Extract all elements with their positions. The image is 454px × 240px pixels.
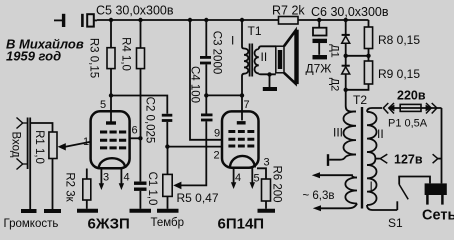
wire: C4/C3 junction to T1/V2 pin 7 node (206, 94, 242, 96)
svg-text:Тембр: Тембр (151, 217, 185, 229)
V2 anode bar (pin 7) (237, 121, 246, 124)
ground bar (C6) (313, 55, 328, 59)
capacitor C2 0,025 (162, 115, 173, 120)
fuse Р1 0,5А (400, 104, 421, 111)
wire: winding I bottom to switch S1 (367, 205, 397, 210)
svg-text:4: 4 (124, 172, 130, 184)
node: pin6/R4/C1 (138, 136, 142, 140)
svg-text:9: 9 (214, 128, 220, 140)
node: Д2/R9/T2 HV (344, 88, 348, 92)
wire: +B top rail right segment (298, 19, 369, 21)
wire: +B top rail left segment (97, 19, 279, 21)
T1 secondary winding II (255, 49, 259, 73)
wire: T1 secondary top to speaker (259, 46, 276, 49)
svg-text:С1 1,0: С1 1,0 (146, 172, 158, 206)
svg-text:R1 1,0: R1 1,0 (33, 130, 45, 164)
transformer T2 core (361, 107, 363, 209)
node: rail/g2 feed (188, 18, 192, 22)
node: rail/T1 (240, 18, 244, 22)
V1 grid dashes (100, 132, 126, 148)
wire: jack to R1 top (30, 123, 52, 132)
V1 heater lead pin 3 with arrow (100, 169, 102, 184)
T2 winding III (HV secondary) (343, 112, 356, 155)
resistor R3 0,15 (107, 20, 115, 96)
V2 cathode dome (230, 156, 255, 168)
svg-text:I: I (370, 179, 373, 193)
svg-text:II: II (261, 50, 268, 64)
wire C5 to rail (95, 19, 98, 21)
resistor R7 (279, 17, 299, 25)
node: Д1/Д2 junction (344, 54, 348, 58)
wire: R6 bottom to ground (265, 201, 267, 209)
ground bar (R5) (157, 209, 179, 213)
switch S1 (397, 177, 430, 211)
svg-text:7: 7 (244, 99, 250, 111)
T2 heater winding (6,3в) (345, 178, 357, 204)
terminal bar (HV return) (327, 154, 329, 166)
ground bar (R6) (258, 209, 276, 213)
svg-text:Т1: Т1 (248, 24, 262, 38)
wire: C2 bottom to g1 junction (166, 122, 168, 147)
svg-text:1959 год: 1959 год (6, 49, 61, 64)
input jack X1 (Вход) (17, 118, 31, 210)
V2 heater lead pin 5 with arrow (251, 168, 253, 183)
svg-text:Вход: Вход (10, 131, 22, 157)
speaker BA1 (276, 30, 299, 84)
resistor R9 0,15 (364, 61, 372, 84)
svg-text:Р1 0,5А: Р1 0,5А (388, 118, 428, 130)
wire: anode Y95 run to C2 (111, 96, 167, 114)
svg-text:2: 2 (214, 150, 220, 162)
jack socket line B / ground conductor (29, 118, 31, 210)
svg-text:127в: 127в (394, 153, 423, 167)
capacitor C3 2000 (200, 20, 211, 95)
wire: junction down to C1 (139, 138, 141, 181)
node: speaker return (267, 72, 271, 76)
svg-text:R9 0,15: R9 0,15 (378, 67, 420, 81)
wire: V2 cathode pin 3 to R6 (257, 168, 266, 179)
V1 anode bar (pin 5) (106, 121, 116, 124)
node: R8/R9 junction (366, 54, 370, 58)
C5 minus electrode hollow box (87, 14, 94, 26)
svg-text:220в: 220в (397, 89, 426, 103)
capacitor C1 1,0 (134, 183, 147, 189)
T2 winding I (primary lower) (367, 165, 377, 205)
svg-text:6П14П: 6П14П (218, 216, 265, 233)
svg-text:Сеть: Сеть (422, 208, 454, 224)
127в right chevron to plug wire (433, 154, 438, 163)
svg-text:R5 0,47: R5 0,47 (177, 191, 219, 205)
resistor R8 0,15 (364, 27, 372, 49)
wire: T1 secondary bottom to speaker and ground (259, 72, 276, 75)
svg-text:5: 5 (100, 99, 106, 111)
svg-text:Д7Ж: Д7Ж (306, 62, 332, 76)
svg-text:С4 100: С4 100 (189, 66, 201, 103)
svg-text:R6 200: R6 200 (271, 165, 283, 202)
R5 wiper arrow fed from C4 (181, 121, 206, 185)
node: C3/C4 junction (204, 93, 208, 97)
wire: down to mains plug (441, 108, 443, 183)
svg-text:4: 4 (235, 172, 241, 184)
svg-text:~ 6,3в: ~ 6,3в (303, 190, 335, 202)
node: rail/Д1 (344, 18, 348, 22)
capacitor C6 (electrolytic, vertical) (313, 20, 328, 55)
wire: screen grid feed rail to V2 pin 9 (190, 20, 222, 140)
svg-text:6: 6 (132, 125, 138, 137)
ground bar (R1) (44, 209, 61, 213)
wire: heater winding bottom lead with arrow (321, 204, 358, 209)
node: rail/R4 (138, 18, 142, 22)
jack plug chevron upper (17, 118, 23, 129)
wire between R8 and R9 (368, 49, 370, 62)
node: C2/R5/g1 (165, 144, 169, 148)
wire stub left of C5 (54, 19, 62, 21)
svg-text:R3 0,15: R3 0,15 (88, 38, 100, 78)
diode Д2 (Д7Ж) (342, 56, 350, 90)
wire: HV node down to T2 winding III (346, 90, 356, 112)
wire: C1 bottom to ground (139, 191, 141, 209)
220в connector chevrons right (426, 103, 431, 114)
V2 grid dashes (228, 132, 254, 147)
V2 heater lead pin 4 with arrow (233, 168, 235, 183)
node: anode V1 junction (109, 93, 113, 97)
wire: R9 bottom to HV node (346, 84, 369, 90)
svg-text:R4 1,0: R4 1,0 (120, 37, 132, 71)
node: rail/C6 (317, 18, 321, 22)
wire with fuse P1 (389, 107, 442, 109)
transformer T1 primary winding I (242, 20, 248, 95)
svg-text:5: 5 (254, 173, 260, 185)
svg-text:R7 2k: R7 2k (272, 4, 305, 18)
svg-text:С5 30,0х300в: С5 30,0х300в (96, 4, 174, 18)
wire: V1 pin6 to R4/C1 junction (130, 137, 141, 139)
jack socket line A (27, 118, 29, 170)
T2 tap cusp to 127в (367, 152, 375, 165)
mains plug (Сеть) (425, 183, 447, 204)
127в tap line with chevron (375, 158, 379, 160)
wire: pin7 node down into V2 anode (241, 95, 243, 120)
svg-text:Д2: Д2 (329, 78, 341, 92)
wire: T2 III bottom lead to terminal (329, 155, 356, 160)
capacitor C5 (electrolytic, horizontal) (54, 14, 97, 27)
svg-text:6ЖЗП: 6ЖЗП (88, 216, 130, 233)
resistor R6 200 (262, 179, 271, 201)
capacitor C4 100 (201, 95, 213, 120)
svg-text:1: 1 (83, 136, 89, 148)
C5 plus plate bar (62, 14, 65, 27)
potentiometer R5 0,47 (Тембр) (163, 147, 172, 209)
wire: winding II top lead to 220в line (367, 108, 382, 112)
potentiometer R1 1,0 (Громкость) (49, 132, 57, 159)
diode Д1 (Д7Ж) (342, 20, 350, 56)
svg-text:3: 3 (264, 157, 270, 169)
T2 winding II (220в primary upper) (367, 112, 377, 152)
svg-text:I: I (231, 34, 234, 48)
svg-text:С6 30,0х300в: С6 30,0х300в (311, 5, 389, 19)
wire: anode junction down into tube (110, 96, 112, 122)
ground bar (R2) (77, 209, 98, 213)
T1 core lines (250, 44, 253, 77)
ground bar (T1 secondary) (263, 87, 277, 91)
R1 wiper arrow and wire to tube pin 1 (65, 142, 90, 147)
svg-text:III: III (333, 126, 343, 140)
jack stub upper (23, 122, 28, 124)
node: rail/C3 (204, 18, 208, 22)
tube V1 6Ж3П envelope (91, 111, 130, 168)
V1 heater lead pin 4 with arrow (120, 169, 122, 184)
220в connector chevrons left (383, 103, 388, 114)
wire: speaker return to ground (269, 75, 271, 88)
svg-text:С3 2000: С3 2000 (211, 31, 223, 74)
ground bar (jack shield) (21, 209, 37, 213)
C5 second plate (81, 14, 84, 27)
jack plug chevron lower (17, 159, 23, 170)
tube V2 6П14П envelope (222, 111, 259, 167)
ground bar (C1) (130, 209, 152, 213)
svg-text:3: 3 (103, 172, 109, 184)
wire: R1 bottom to ground (52, 159, 54, 210)
svg-text:II: II (377, 127, 384, 141)
wire: rail corner down into R8 (368, 20, 370, 27)
svg-text:С2 0,025: С2 0,025 (144, 97, 156, 144)
svg-text:Д1: Д1 (329, 44, 341, 58)
wire: diode junction to R8/R9 junction (346, 55, 369, 57)
svg-text:R2 3к: R2 3к (64, 172, 76, 202)
svg-text:S1: S1 (388, 216, 403, 230)
wire: heater winding top lead with arrow (320, 175, 358, 177)
svg-text:Громкость: Громкость (4, 218, 59, 230)
svg-text:R8 0,15: R8 0,15 (378, 33, 420, 47)
node: T1 primary/V2 pin7 (240, 93, 244, 97)
resistor R4 1,0 (137, 20, 145, 138)
wire: g1 coupling run to V2 pin 2 (167, 146, 222, 148)
node: rail/R3 (109, 18, 113, 22)
resistor R2 3к (83, 169, 91, 209)
jack stub lower (23, 163, 28, 165)
V1 cathode dome (99, 158, 125, 168)
svg-text:Т2: Т2 (353, 93, 367, 107)
